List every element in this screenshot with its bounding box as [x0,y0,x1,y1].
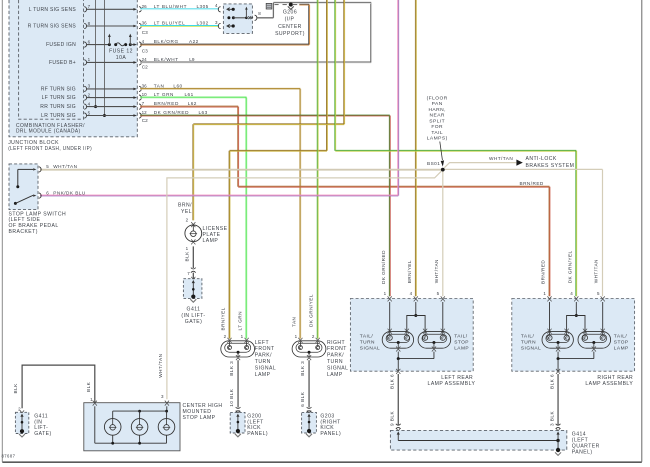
svg-text:ANTI-LOCK: ANTI-LOCK [526,156,557,162]
cluster internal wire to pin 8 [227,7,252,20]
svg-text:G411: G411 [187,307,201,313]
svg-text:LEFT REAR: LEFT REAR [441,375,473,381]
module pin 6 FUSED IGN [46,39,91,48]
svg-text:BRN/RED: BRN/RED [541,260,546,284]
connector pin 24 BLK/WHT L9 [139,57,195,65]
svg-text:LAMP: LAMP [203,238,219,244]
svg-text:DK GRN/RED: DK GRN/RED [381,250,386,284]
svg-text:FRONT: FRONT [255,346,275,352]
sheet number 87687 [2,454,16,459]
svg-text:SPLIT: SPLIT [429,118,445,124]
svg-text:DK GRN/YEL: DK GRN/YEL [567,250,572,283]
svg-text:LAMP: LAMP [255,372,271,378]
svg-text:FUSE 12: FUSE 12 [109,48,133,54]
svg-text:L302: L302 [197,21,209,26]
svg-text:BRN/YEL: BRN/YEL [407,260,412,283]
svg-text:PARK/: PARK/ [327,353,344,359]
wire WHT/TAN to right rear lamp [443,169,603,296]
cluster connector box [223,4,252,34]
svg-text:BRN/RED: BRN/RED [154,101,179,106]
svg-text:BRN/: BRN/ [178,203,192,209]
svg-text:PNK/DK BLU: PNK/DK BLU [53,190,86,195]
svg-text:12: 12 [142,110,148,115]
wire TAN L60 [140,88,301,338]
svg-text:BS01: BS01 [427,161,440,166]
ground G414 (left quarter panel) [390,428,599,455]
connector pin 26 LT BLU/WHT L305 [139,4,209,12]
svg-text:TAIL: TAIL [431,130,443,136]
svg-text:BLK: BLK [184,251,189,262]
svg-text:TAN: TAN [154,84,165,89]
svg-text:(LEFT FRONT DASH, UNDER I/P): (LEFT FRONT DASH, UNDER I/P) [8,146,92,152]
wire BLK/ORG A22 [140,4,309,45]
wire PNK/DK BLU [40,0,399,196]
svg-text:L305: L305 [197,4,209,9]
svg-text:6 BLK: 6 BLK [300,391,305,406]
anti-lock brakes system arrow [489,156,574,169]
svg-text:9 BLK: 9 BLK [389,411,394,426]
connector pin 36 LT BLU/YEL L302 [139,21,209,29]
svg-text:BLK: BLK [86,381,91,392]
module pin 8 R TURN SIG SENS [28,21,91,30]
connector label C2 (2) [142,118,148,123]
svg-text:SIGNAL: SIGNAL [360,345,380,351]
junction block (left front dash, under I/P) [8,0,137,152]
svg-text:PANEL): PANEL) [320,431,341,437]
svg-text:PANEL): PANEL) [572,450,593,456]
svg-text:WHT/TAN: WHT/TAN [53,164,77,169]
svg-text:BLK 3: BLK 3 [229,361,234,376]
svg-text:L63: L63 [199,110,208,115]
svg-text:STOP: STOP [614,340,629,346]
svg-text:BLK 3: BLK 3 [300,361,305,376]
svg-text:BRAKES SYSTEM: BRAKES SYSTEM [526,163,575,169]
svg-text:LAMP ASSEMBLY: LAMP ASSEMBLY [428,381,476,387]
svg-text:LT BLU/YEL: LT BLU/YEL [154,21,186,26]
svg-text:SUPPORT): SUPPORT) [275,31,305,37]
module internal bus wire A [94,0,97,108]
svg-text:C3: C3 [142,30,148,35]
stop lamp switch [9,164,86,235]
wire WHT/TAN stop lamp feed [40,168,443,171]
license plate lamp [178,203,228,262]
svg-text:LEFT: LEFT [255,340,269,346]
svg-text:TURN: TURN [255,359,271,365]
connector pin 36 TAN L60 [139,84,183,92]
svg-text:(IN LIFT-: (IN LIFT- [181,313,205,319]
wire DK GRN/YEL to right front lamp [316,0,319,339]
wire module pin 8 to connector [87,25,137,28]
wire BLK right front lamp to G203 [300,360,311,412]
wire WHT/TAN to center stop lamp [167,171,441,399]
module pin 1 FUSED B+ [49,57,91,66]
connector pin 12 DK GRN/RED L63 [139,110,208,118]
svg-text:TAIL/: TAIL/ [521,334,535,340]
svg-text:RR TURN SIG: RR TURN SIG [40,104,76,110]
svg-text:TURN: TURN [360,340,375,346]
svg-text:LT BLU/WHT: LT BLU/WHT [154,4,187,9]
svg-text:LT GRN: LT GRN [154,92,174,97]
connector label C3 (2) [142,48,148,53]
wire DK GRN/YEL to right rear lamp [335,0,577,296]
svg-text:36: 36 [142,84,148,89]
svg-text:10 BLK: 10 BLK [229,388,234,406]
svg-text:BLK/ORG: BLK/ORG [154,39,179,44]
cluster pin 4 [215,3,235,12]
wire fused ign to fuse [87,44,110,46]
svg-text:FRONT: FRONT [327,346,347,352]
wire BLK 6 left rear to G414 [389,374,400,429]
svg-text:BLK: BLK [13,383,18,394]
svg-text:10A: 10A [116,55,127,61]
svg-text:DK GRN/YEL: DK GRN/YEL [309,294,314,327]
module pin 4 RR TURN SIG [40,101,90,110]
wire BLK left front lamp to G200 [229,360,240,412]
svg-text:RIGHT: RIGHT [327,340,345,346]
svg-text:SIGNAL: SIGNAL [521,345,541,351]
svg-text:PAN: PAN [432,101,443,107]
ground G411 (in lift-gate) 2 [15,406,51,437]
svg-text:L60: L60 [173,84,182,89]
svg-text:PLATE: PLATE [203,232,221,238]
svg-text:26: 26 [142,4,148,9]
svg-text:10: 10 [142,92,148,97]
svg-text:WHT/TAN: WHT/TAN [489,156,513,161]
svg-text:C2: C2 [142,118,148,123]
wire DK GRN/RED L63 [140,115,390,296]
svg-text:TURN: TURN [327,359,343,365]
svg-text:LF TURN SIG: LF TURN SIG [42,95,76,101]
svg-text:FUSED B+: FUSED B+ [49,60,76,66]
svg-text:LAMPS): LAMPS) [427,136,448,142]
wire BLK license lamp to G411 [187,246,195,279]
wire module pin 1 to connector [87,61,137,64]
wire module pin 7 to connector [87,8,137,11]
left front park/turn signal lamp [221,307,277,378]
ground G411 (in lift-gate) [181,277,205,325]
svg-text:LAMP: LAMP [454,345,469,351]
svg-text:3 BLK: 3 BLK [549,411,554,426]
ground G200 (left kick panel) [230,411,268,438]
floor pan harness note [427,96,448,167]
wire module pin 4 to connector [87,105,137,108]
svg-text:L9: L9 [189,57,195,62]
svg-text:LAMP ASSEMBLY: LAMP ASSEMBLY [585,381,633,387]
left rear lamp assembly [350,250,475,387]
wire LT BLU/YEL L302 [140,25,219,28]
ground G203 (right kick panel) [302,411,342,438]
ground eyelet block [266,3,272,9]
svg-text:HARN,: HARN, [428,107,445,113]
svg-text:(FLOOR: (FLOOR [427,96,448,102]
svg-text:PANEL): PANEL) [247,431,268,437]
connector label C2 [142,65,148,70]
svg-text:24: 24 [142,57,148,62]
wire BRN/YEL to left front lamp [229,0,327,339]
svg-text:RIGHT REAR: RIGHT REAR [597,375,633,381]
wire BLK 6 right rear to G414 [549,374,560,429]
svg-text:LR TURN SIG: LR TURN SIG [41,113,76,119]
module internal bus wire B [103,0,106,117]
svg-text:BRN/RED: BRN/RED [520,181,544,186]
wire module pin 2 to connector [87,96,137,99]
module pin 5 LR TURN SIG [41,110,90,119]
svg-text:SIGNAL: SIGNAL [327,365,348,371]
right rear lamp assembly [512,250,635,387]
svg-text:GATE): GATE) [185,319,202,325]
combination flasher / DRL module (Canada) [16,0,85,135]
svg-text:FUSED IGN: FUSED IGN [46,42,76,48]
wire BLK center stop lamp to G411 [13,365,95,408]
svg-text:BRACKET): BRACKET) [9,229,38,235]
right front park/turn signal lamp [291,294,348,378]
svg-text:36: 36 [142,21,148,26]
wire LT GRN L61 [140,97,247,338]
svg-text:WHT/TAN: WHT/TAN [434,259,439,283]
svg-text:L TURN SIG SENS: L TURN SIG SENS [29,7,77,13]
wire BRN/YEL to license plate lamp [193,0,345,220]
svg-text:R TURN SIG SENS: R TURN SIG SENS [28,24,77,30]
svg-text:TAIL/: TAIL/ [614,334,628,340]
module pin 3 RF TURN SIG [41,84,91,93]
svg-text:LAMP: LAMP [614,345,629,351]
module pin 7 L TURN SIG SENS [29,4,91,13]
center high mounted stop lamp [84,354,223,451]
svg-text:(I/P: (I/P [285,17,295,23]
fuse 12 10A [108,34,133,61]
svg-text:NEAR: NEAR [430,113,445,119]
connector pin 4 BLK/ORG A22 [139,39,199,47]
svg-text:DK GRN/RED: DK GRN/RED [154,110,189,115]
svg-text:PARK/: PARK/ [255,353,272,359]
connector pin 10 LT GRN L61 [139,92,194,100]
svg-text:STOP LAMP: STOP LAMP [183,415,216,421]
svg-text:BLK/WHT: BLK/WHT [154,57,179,62]
svg-text:LAMP: LAMP [327,372,343,378]
svg-text:A22: A22 [189,39,199,44]
wire BRN/YEL to left rear lamp [414,0,417,296]
svg-text:BRN/YEL: BRN/YEL [221,307,226,330]
svg-text:TURN: TURN [521,340,536,346]
wire LT BLU/WHT L305 [140,8,219,11]
svg-text:GATE): GATE) [34,431,51,437]
svg-text:L62: L62 [188,101,197,106]
svg-text:G206: G206 [283,10,297,16]
svg-text:BLK 6: BLK 6 [549,374,554,389]
wire BRN/RED L62 [140,106,550,296]
svg-text:LICENSE: LICENSE [203,226,228,232]
svg-text:WHT/TAN: WHT/TAN [158,354,163,378]
module pin 2 LF TURN SIG [42,92,91,101]
wire module pin 5 to connector [87,114,137,117]
ground G206 [275,3,305,38]
svg-text:FOR: FOR [431,124,443,130]
splice BS01 [427,161,445,172]
svg-text:YEL: YEL [181,209,192,215]
svg-text:TAN: TAN [291,317,296,327]
svg-text:STOP: STOP [454,340,469,346]
connector label C3 [142,30,148,35]
svg-text:L61: L61 [185,92,194,97]
svg-text:CENTER: CENTER [278,24,302,30]
connector pin 7 BRN/RED L62 [139,101,197,109]
wire module pin 3 to connector [87,88,137,91]
svg-text:RF TURN SIG: RF TURN SIG [41,87,76,93]
svg-text:C2: C2 [142,65,148,70]
svg-text:TAIL/: TAIL/ [360,334,374,340]
svg-text:87687: 87687 [2,454,16,459]
svg-text:TAIL/: TAIL/ [454,334,468,340]
wire WHT/TAN to left rear lamp [442,169,444,296]
svg-text:BLK 6: BLK 6 [389,374,394,389]
svg-text:C3: C3 [142,48,148,53]
wire fuse to connector [130,43,137,46]
cluster pin 8 wire to G206 [255,3,274,21]
svg-text:WHT/TAN: WHT/TAN [594,259,599,283]
wire WHT/TAN to anti-lock brakes [444,163,516,168]
svg-text:LT GRN: LT GRN [238,311,243,330]
wire BLK/WHT L9 [140,2,371,62]
cluster pin 3 [215,20,235,29]
svg-text:SIGNAL: SIGNAL [255,365,276,371]
svg-text:DRL MODULE (CANADA): DRL MODULE (CANADA) [16,129,81,135]
